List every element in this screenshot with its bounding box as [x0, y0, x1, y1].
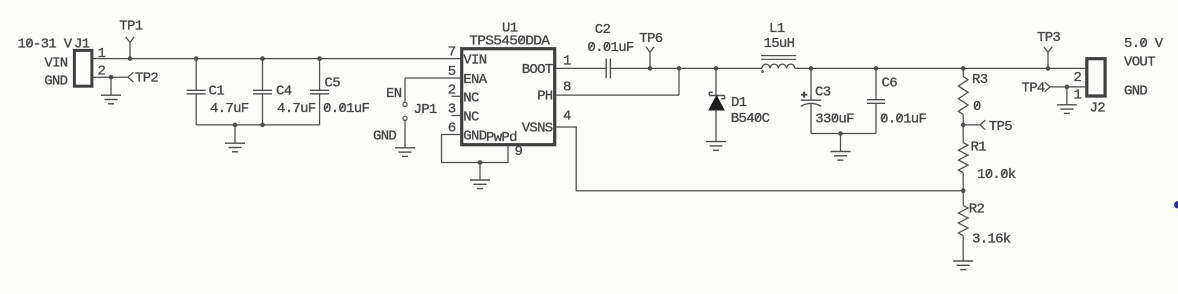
svg-text:VIN: VIN: [44, 56, 67, 72]
svg-text:VOUT: VOUT: [1124, 55, 1155, 71]
svg-text:0.01uF: 0.01uF: [880, 112, 927, 128]
svg-text:R2: R2: [969, 202, 985, 218]
svg-text:R1: R1: [971, 139, 987, 155]
svg-text:10.0k: 10.0k: [977, 167, 1016, 183]
svg-text:4: 4: [563, 109, 571, 125]
svg-text:330uF: 330uF: [815, 112, 854, 128]
svg-text:TP6: TP6: [639, 31, 662, 47]
svg-text:PH: PH: [537, 89, 553, 105]
svg-text:1: 1: [563, 53, 571, 69]
svg-text:15uH: 15uH: [764, 36, 795, 52]
svg-text:C3: C3: [815, 85, 831, 101]
svg-text:J2: J2: [1090, 101, 1106, 117]
svg-text:C4: C4: [276, 83, 292, 99]
svg-text:3.16k: 3.16k: [972, 231, 1011, 247]
svg-text:VIN: VIN: [463, 53, 486, 69]
svg-text:0.01uF: 0.01uF: [587, 40, 634, 56]
svg-text:VSNS: VSNS: [522, 121, 553, 137]
svg-text:10-31 V: 10-31 V: [18, 37, 73, 53]
svg-text:GND: GND: [373, 129, 396, 145]
svg-text:J1: J1: [74, 37, 90, 53]
svg-text:1: 1: [1074, 88, 1082, 104]
svg-text:C6: C6: [882, 75, 898, 91]
svg-text:TP1: TP1: [119, 19, 142, 35]
svg-text:D1: D1: [731, 95, 747, 111]
svg-text:C2: C2: [595, 22, 611, 38]
svg-text:TP3: TP3: [1037, 30, 1060, 46]
svg-text:R3: R3: [972, 72, 988, 88]
svg-text:JP1: JP1: [414, 102, 437, 118]
svg-text:6: 6: [448, 121, 456, 137]
svg-text:9: 9: [515, 144, 523, 160]
svg-text:TP4: TP4: [1022, 81, 1045, 97]
svg-text:GND: GND: [463, 129, 486, 145]
svg-text:NC: NC: [463, 90, 479, 106]
svg-text:L1: L1: [769, 21, 785, 37]
svg-text:NC: NC: [463, 110, 479, 126]
svg-text:TPS5450DDA: TPS5450DDA: [469, 34, 550, 50]
svg-text:ENA: ENA: [463, 72, 487, 88]
svg-text:B540C: B540C: [731, 111, 770, 127]
svg-text:TP5: TP5: [989, 119, 1012, 135]
svg-text:2: 2: [1074, 70, 1082, 86]
svg-text:7: 7: [448, 45, 456, 61]
svg-text:BOOT: BOOT: [522, 62, 553, 78]
svg-text:GND: GND: [44, 74, 67, 90]
svg-text:4.7uF: 4.7uF: [277, 101, 316, 117]
svg-text:GND: GND: [1124, 84, 1147, 100]
svg-text:0.01uF: 0.01uF: [323, 101, 370, 117]
svg-text:2: 2: [448, 82, 456, 98]
svg-text:1: 1: [98, 46, 106, 62]
svg-text:4.7uF: 4.7uF: [210, 101, 249, 117]
svg-text:3: 3: [448, 102, 456, 118]
svg-text:C5: C5: [325, 75, 341, 91]
svg-text:0: 0: [973, 99, 981, 115]
svg-text:EN: EN: [386, 86, 402, 102]
svg-text:2: 2: [98, 64, 106, 80]
svg-text:5: 5: [448, 64, 456, 80]
svg-text:PwPd: PwPd: [486, 130, 517, 146]
svg-text:5.0 V: 5.0 V: [1124, 36, 1164, 52]
svg-text:TP2: TP2: [135, 70, 158, 86]
svg-text:C1: C1: [209, 83, 225, 99]
svg-text:8: 8: [563, 79, 571, 95]
